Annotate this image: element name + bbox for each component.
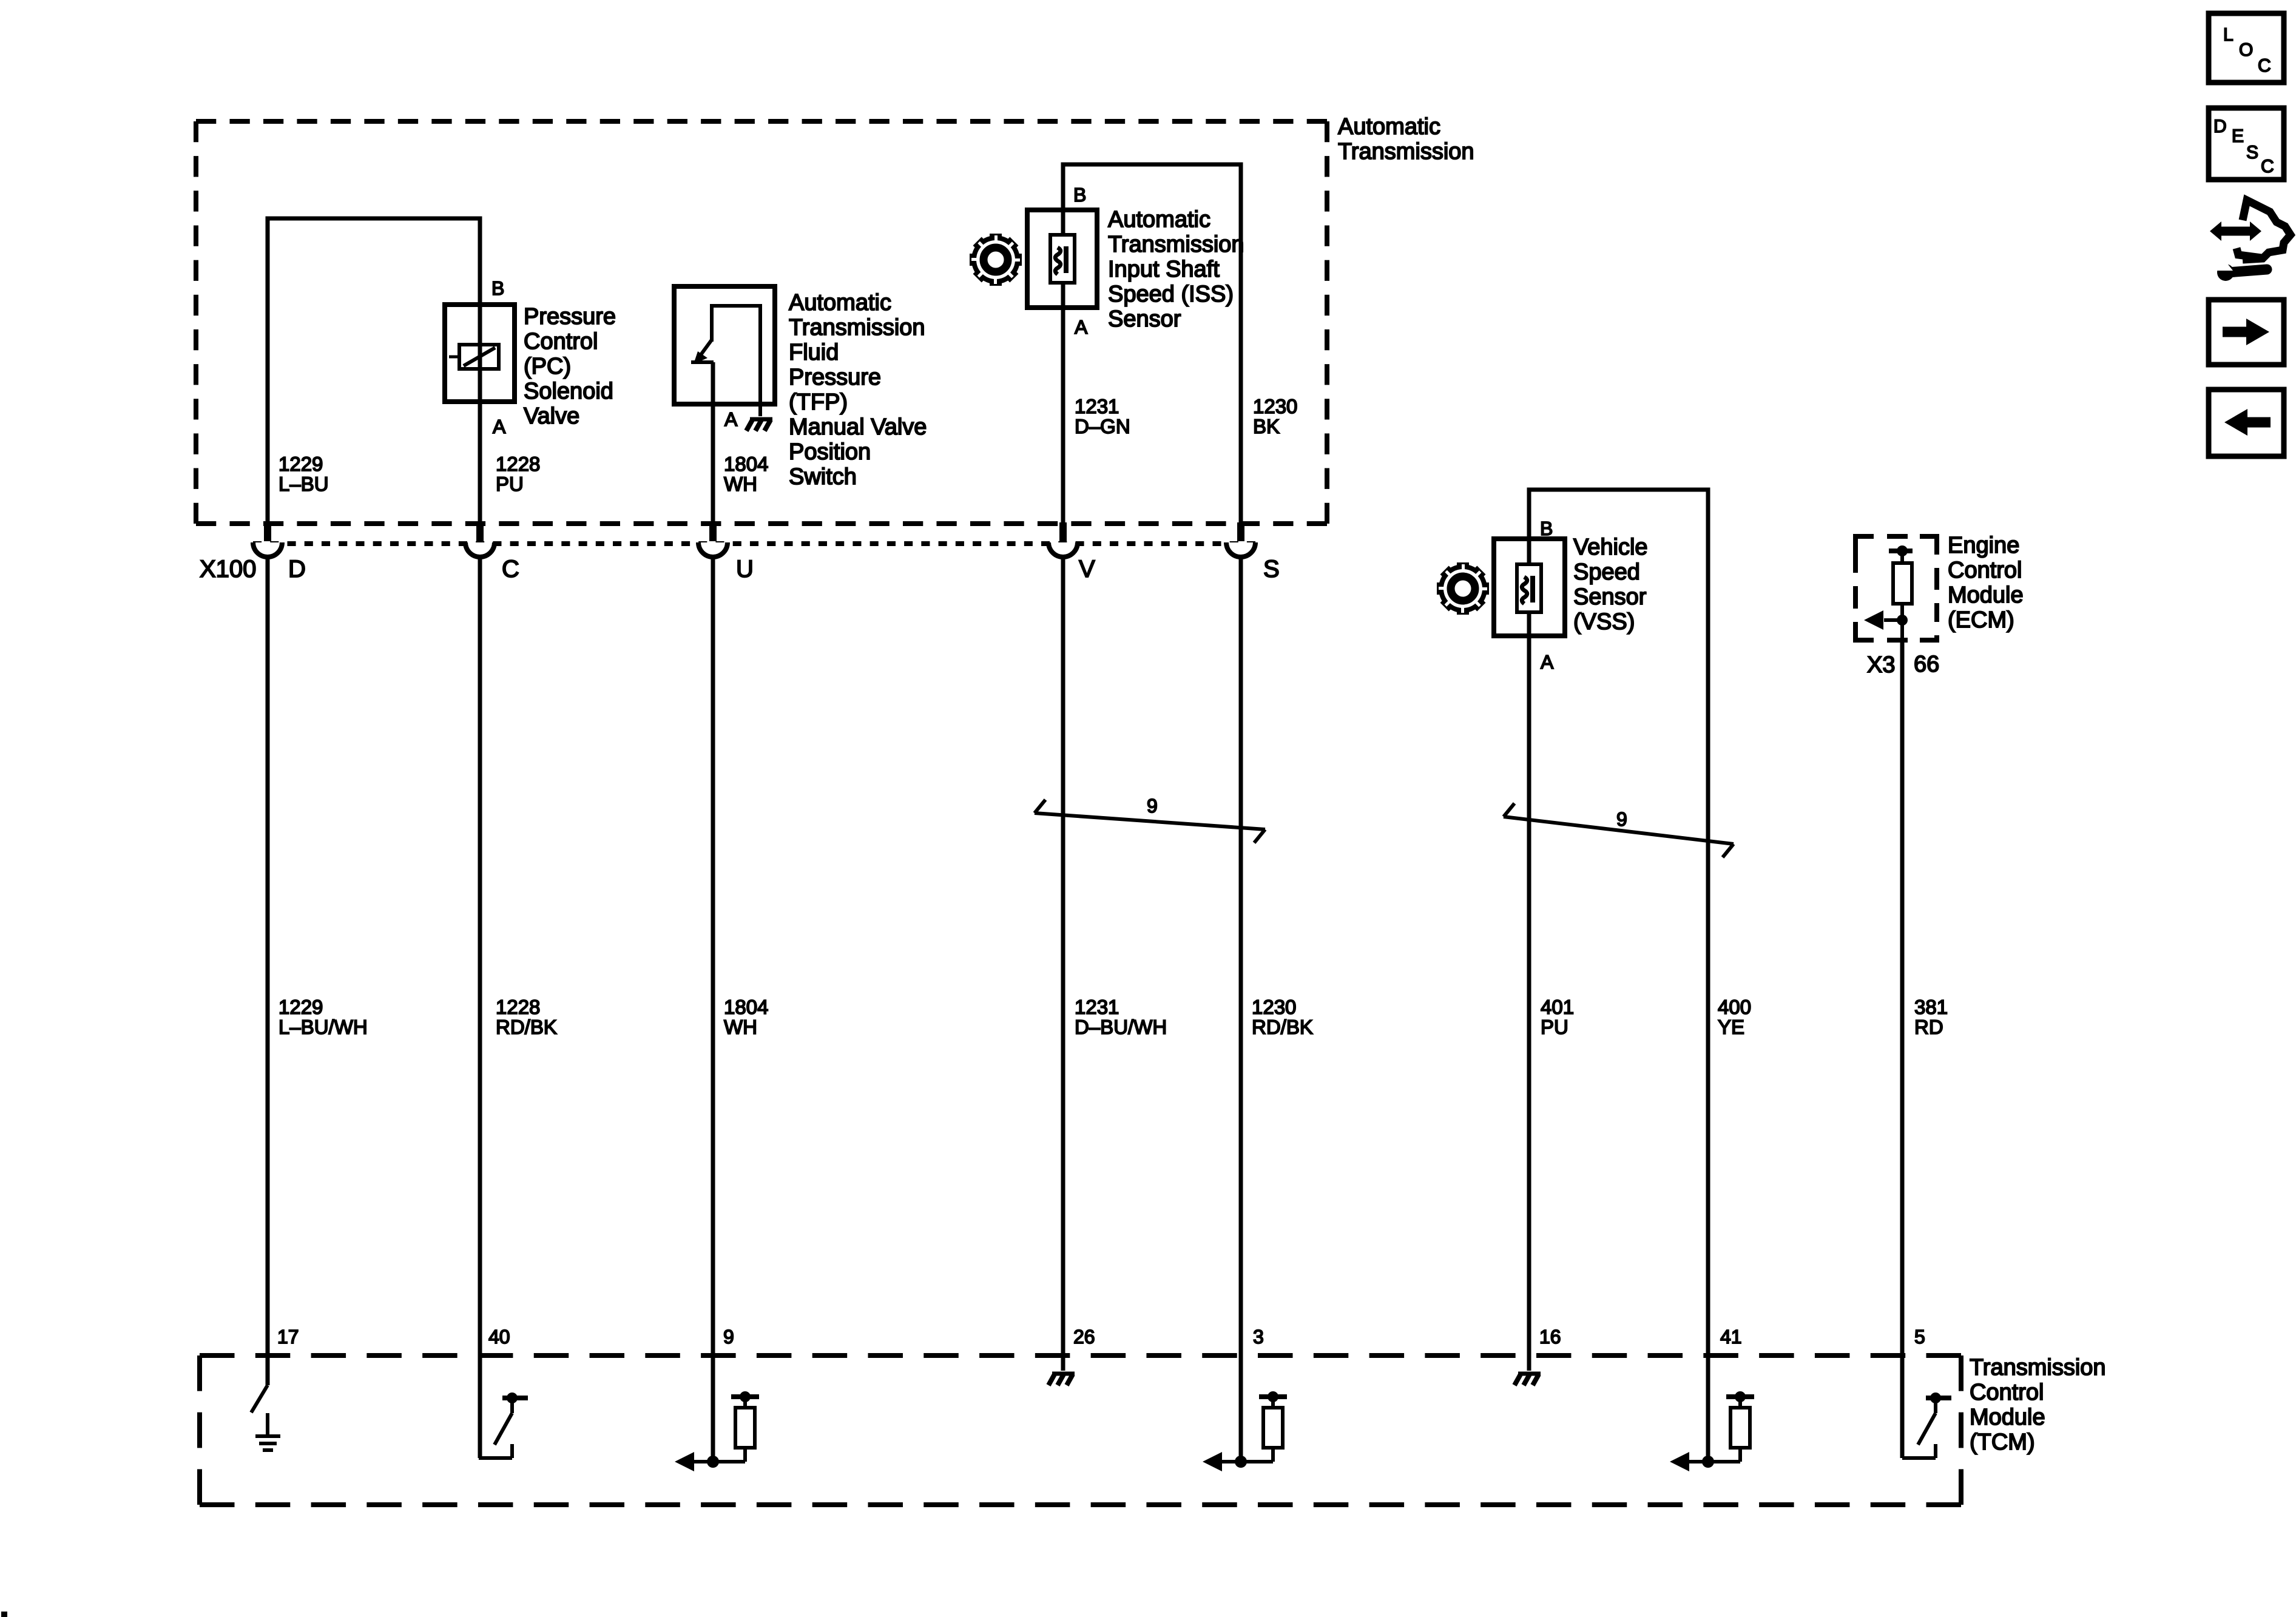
connector pin U: [698, 522, 728, 557]
label wire 1228 RD/BK: [496, 996, 557, 1038]
VSS sensor box: [1494, 539, 1565, 636]
svg-text:D: D: [288, 556, 306, 582]
svg-text:1230: 1230: [1253, 395, 1297, 417]
svg-text:1230: 1230: [1252, 996, 1296, 1018]
svg-text:5: 5: [1914, 1326, 1925, 1348]
label Pressure Control (PC) Solenoid Valve: [524, 304, 616, 429]
connector pin V: [1048, 522, 1078, 557]
wire 1228 RD/BK run: [478, 558, 482, 1458]
svg-text:Module: Module: [1948, 582, 2024, 608]
svg-text:Sensor: Sensor: [1573, 584, 1647, 610]
label wire 1228 PU: [496, 453, 540, 495]
svg-text:(TCM): (TCM): [1970, 1430, 2035, 1455]
svg-text:A: A: [1075, 316, 1088, 338]
svg-text:U: U: [736, 556, 754, 582]
svg-text:YE: YE: [1718, 1016, 1744, 1038]
svg-text:Module: Module: [1970, 1405, 2045, 1430]
svg-text:O: O: [2239, 40, 2253, 60]
svg-text:1804: 1804: [724, 453, 768, 475]
svg-text:Transmission: Transmission: [789, 315, 925, 340]
svg-text:Input Shaft: Input Shaft: [1108, 257, 1220, 282]
svg-text:B: B: [491, 277, 504, 299]
svg-text:Speed (ISS): Speed (ISS): [1108, 282, 1234, 307]
ground TCM pin 16: [1514, 1374, 1541, 1385]
svg-text:B: B: [1540, 518, 1553, 539]
VSS sensor element: [1517, 564, 1541, 612]
svg-text:WH: WH: [724, 1016, 757, 1038]
svg-text:Transmission: Transmission: [1108, 232, 1244, 257]
svg-text:Automatic: Automatic: [789, 290, 891, 316]
svg-text:3: 3: [1253, 1326, 1264, 1348]
svg-text:17: 17: [277, 1326, 299, 1348]
label wire 1804 WH lower: [724, 996, 768, 1038]
ISS sensor element: [1050, 235, 1075, 283]
svg-text:PU: PU: [1541, 1016, 1568, 1038]
connector X100 dotted line: [253, 541, 1255, 546]
svg-text:Automatic: Automatic: [1338, 114, 1440, 140]
svg-text:26: 26: [1073, 1326, 1095, 1348]
svg-text:Pressure: Pressure: [789, 365, 881, 390]
svg-text:381: 381: [1914, 996, 1948, 1018]
label wire 1804 WH: [724, 453, 768, 495]
svg-text:401: 401: [1541, 996, 1574, 1018]
ground TCM pin 17: [255, 1413, 280, 1450]
wire D top run to PC solenoid: [268, 218, 480, 524]
svg-text:S: S: [1263, 556, 1280, 582]
svg-text:Transmission: Transmission: [1338, 139, 1474, 164]
svg-text:9: 9: [723, 1326, 734, 1348]
svg-text:Vehicle: Vehicle: [1573, 535, 1648, 560]
svg-text:400: 400: [1718, 996, 1751, 1018]
svg-text:Control: Control: [1970, 1380, 2044, 1405]
svg-text:A: A: [493, 416, 506, 437]
label wire 1231 D-GN: [1075, 395, 1130, 437]
ground TCM pin 26: [1048, 1374, 1075, 1385]
wire 1230 RD/BK run: [1239, 558, 1243, 1462]
solenoid valve PC box: [445, 305, 515, 402]
resistor and signal arrow pin 9: [694, 1397, 759, 1462]
switch pin 5: [1902, 1398, 1951, 1458]
svg-text:V: V: [1079, 556, 1095, 582]
svg-text:40: 40: [488, 1326, 510, 1348]
gear icon VSS: [1437, 562, 1489, 615]
svg-text:(VSS): (VSS): [1573, 609, 1635, 635]
svg-text:WH: WH: [724, 473, 757, 495]
label Automatic Transmission: [1338, 114, 1474, 164]
svg-text:Control: Control: [1948, 558, 2022, 583]
svg-text:PU: PU: [496, 473, 524, 495]
svg-text:Switch: Switch: [789, 464, 857, 490]
svg-text:1804: 1804: [724, 996, 768, 1018]
switch pin 17: [251, 1385, 268, 1413]
svg-text:Valve: Valve: [524, 403, 579, 429]
svg-text:66: 66: [1914, 652, 1939, 677]
icon vehicle with wrench: [2210, 200, 2291, 281]
svg-text:B: B: [1073, 184, 1086, 206]
svg-text:Automatic: Automatic: [1108, 207, 1210, 232]
svg-text:Pressure: Pressure: [524, 304, 616, 329]
svg-text:X100: X100: [200, 556, 256, 582]
svg-text:L: L: [2223, 25, 2234, 45]
svg-text:RD/BK: RD/BK: [1252, 1016, 1313, 1038]
svg-text:Transmission: Transmission: [1970, 1355, 2106, 1380]
ECM dashed box: [1855, 536, 1937, 640]
TFP switch symbol: [691, 306, 760, 416]
connector pin C: [465, 522, 495, 557]
svg-text:D–GN: D–GN: [1075, 415, 1130, 437]
wire through ISS box: [1061, 210, 1065, 237]
svg-text:1228: 1228: [496, 453, 540, 475]
icon arrow left box: [2209, 390, 2284, 456]
svg-text:A: A: [1541, 651, 1554, 673]
wire 1228 from PC to connector C: [478, 305, 482, 522]
label wire 1230 RD/BK: [1252, 996, 1313, 1038]
wire 1804 from TFP to connector U: [711, 362, 715, 522]
TCM dashed box: [200, 1355, 1961, 1505]
svg-text:L–BU: L–BU: [279, 473, 329, 495]
resistor and signal arrow pin 41: [1689, 1397, 1754, 1462]
svg-text:RD/BK: RD/BK: [496, 1016, 557, 1038]
wire 1229 L-BU/WH run: [266, 558, 270, 1385]
label wire 401 PU: [1541, 996, 1574, 1038]
label wire 1230 BK: [1253, 395, 1297, 437]
icon DESC box: [2209, 108, 2284, 180]
ISS sensor box: [1027, 210, 1097, 308]
connector pin D: [253, 522, 282, 557]
wire through VSS box: [1527, 539, 1531, 566]
icon LOC box: [2209, 13, 2284, 83]
label Transmission Control Module (TCM): [1970, 1355, 2106, 1455]
svg-text:16: 16: [1539, 1326, 1561, 1348]
svg-text:9: 9: [1616, 808, 1627, 830]
svg-text:9: 9: [1147, 795, 1158, 817]
svg-text:C: C: [2261, 157, 2274, 177]
svg-text:Speed: Speed: [1573, 559, 1640, 585]
gear icon ISS: [970, 234, 1022, 286]
solenoid coil symbol: [449, 345, 499, 369]
svg-text:BK: BK: [1253, 415, 1280, 437]
svg-text:(PC): (PC): [524, 354, 571, 379]
wire count 9 slash VSS pair: [1504, 803, 1734, 857]
resistor and signal arrow pin 3: [1222, 1397, 1287, 1462]
svg-text:Position: Position: [789, 439, 871, 465]
wire 1804 WH run: [711, 558, 715, 1462]
svg-text:X3: X3: [1867, 652, 1895, 678]
wire 1231 from ISS A to connector V: [1061, 308, 1065, 522]
svg-text:Solenoid: Solenoid: [524, 379, 613, 404]
ground TFP switch: [746, 419, 772, 431]
ISS sensor loop wire B: [1063, 164, 1241, 522]
wire count 9 slash ISS pair: [1035, 800, 1265, 843]
svg-text:1231: 1231: [1075, 996, 1119, 1018]
label Automatic Transmission Input Shaft Speed (ISS) Sensor: [1108, 207, 1244, 332]
svg-text:C: C: [2258, 56, 2271, 76]
label Automatic Transmission Fluid Pressure (TFP) Manual Valve Position Switch: [789, 290, 927, 490]
svg-text:Control: Control: [524, 329, 598, 354]
svg-text:L–BU/WH: L–BU/WH: [279, 1016, 368, 1038]
icon arrow right box: [2209, 300, 2284, 365]
page artifact dot bottom left: [1, 1612, 7, 1617]
svg-text:Sensor: Sensor: [1108, 306, 1181, 332]
svg-text:D: D: [2213, 116, 2227, 137]
label wire 1229 L-BU/WH: [279, 996, 368, 1038]
svg-text:Manual Valve: Manual Valve: [789, 414, 927, 440]
svg-text:Fluid: Fluid: [789, 340, 839, 365]
wire 401 PU run: [1527, 636, 1531, 1371]
Automatic Transmission dashed box: [196, 121, 1327, 524]
svg-text:E: E: [2232, 126, 2244, 146]
wire 1231 D-BU/WH run: [1061, 558, 1065, 1371]
svg-text:A: A: [724, 408, 738, 430]
TFP switch box: [674, 286, 775, 404]
wire 381 RD run: [1900, 640, 1905, 1458]
ECM internal resistor: [1884, 551, 1913, 640]
label wire 1231 D-BU/WH: [1075, 996, 1167, 1038]
svg-text:1229: 1229: [279, 996, 323, 1018]
svg-text:RD: RD: [1914, 1016, 1943, 1038]
svg-text:(ECM): (ECM): [1948, 607, 2014, 633]
svg-text:D–BU/WH: D–BU/WH: [1075, 1016, 1167, 1038]
label wire 1229 L-BU: [279, 453, 329, 495]
svg-text:1228: 1228: [496, 996, 540, 1018]
label Engine Control Module (ECM): [1948, 533, 2024, 633]
svg-text:S: S: [2246, 143, 2258, 163]
svg-text:1229: 1229: [279, 453, 323, 475]
switch pin 40: [479, 1398, 528, 1458]
svg-text:1231: 1231: [1075, 395, 1119, 417]
label wire 400 YE: [1718, 996, 1751, 1038]
label Vehicle Speed Sensor (VSS): [1573, 535, 1648, 635]
svg-text:41: 41: [1720, 1326, 1742, 1348]
svg-text:Engine: Engine: [1948, 533, 2019, 558]
label wire 381 RD: [1914, 996, 1948, 1038]
svg-text:C: C: [502, 556, 519, 582]
svg-text:(TFP): (TFP): [789, 390, 848, 415]
VSS sensor loop wire B: [1529, 490, 1708, 1462]
connector pin S: [1226, 522, 1255, 557]
